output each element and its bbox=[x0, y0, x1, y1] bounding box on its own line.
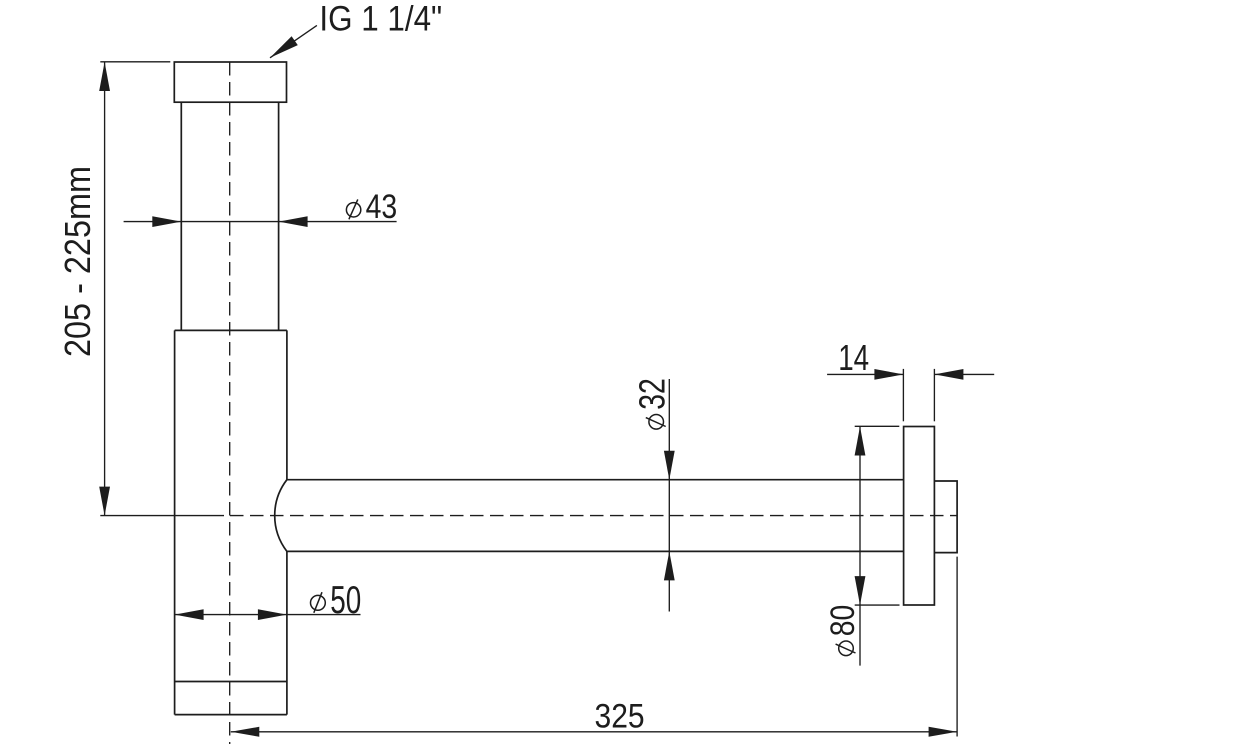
leader arrowhead IG bbox=[270, 36, 298, 58]
arrow left-point (50 left) bbox=[175, 609, 204, 620]
arrow right-point (325 right) bbox=[929, 727, 958, 737]
leader line IG bbox=[270, 25, 317, 57]
arrow up (80 top) bbox=[855, 427, 866, 456]
dim 205-225mm extension line bottom bbox=[100, 515, 224, 517]
body bottom cap line bbox=[175, 681, 287, 683]
label dia 32 (rotated) bbox=[631, 378, 672, 429]
arrow down (205-225 bottom) bbox=[99, 487, 110, 516]
label dia 50 bbox=[311, 579, 362, 622]
arrow down (32 top) bbox=[664, 451, 675, 480]
dim 80 dimension line bbox=[859, 427, 861, 666]
dim 14 dimension line bbox=[827, 373, 994, 375]
vertical centerline bbox=[229, 62, 231, 744]
arrow left-point (325 left) bbox=[231, 727, 259, 737]
label 205 - 225mm (rotated) bbox=[57, 166, 98, 357]
dim 14 extension line left bbox=[902, 369, 904, 421]
wall flange bbox=[904, 427, 935, 606]
vertical pipe bbox=[181, 102, 278, 330]
svg-text:50: 50 bbox=[330, 579, 361, 622]
arrow left-point (14 right) bbox=[934, 369, 963, 380]
svg-text:43: 43 bbox=[366, 188, 398, 226]
arrow right-point (14 left) bbox=[874, 369, 903, 380]
svg-text:IG 1 1/4": IG 1 1/4" bbox=[319, 0, 442, 39]
svg-text:14: 14 bbox=[838, 337, 869, 378]
pipe stub beyond flange bbox=[934, 481, 957, 553]
arrow right (43 left) bbox=[152, 216, 181, 227]
label dia 43 bbox=[346, 188, 397, 226]
dim 325 dimension line bbox=[231, 731, 957, 733]
top cap (IG 1 1/4" fitting) bbox=[174, 62, 286, 102]
dim 32 dimension line bbox=[668, 379, 670, 612]
svg-text:325: 325 bbox=[595, 698, 645, 736]
arrow up (32 bottom) bbox=[664, 551, 675, 580]
dim 80 extension line top bbox=[855, 425, 900, 427]
dim 325 extension line right bbox=[956, 557, 958, 737]
dim 43 dimension line bbox=[124, 221, 397, 223]
label dia 80 (rotated) bbox=[824, 605, 862, 656]
svg-text:205 - 225mm: 205 - 225mm bbox=[57, 166, 98, 357]
arrow down (80 bottom) bbox=[855, 576, 866, 605]
siphon body bbox=[175, 330, 287, 714]
dim 80 extension line bottom bbox=[855, 604, 900, 606]
dim 205-225mm extension line top bbox=[100, 61, 170, 63]
arrow left (43 right) bbox=[279, 216, 308, 227]
svg-text:32: 32 bbox=[631, 378, 672, 410]
dim 50 dimension line bbox=[175, 614, 361, 616]
body-pipe junction arc bbox=[275, 480, 287, 552]
arrow right-point (50 right) bbox=[258, 609, 287, 620]
horizontal outlet pipe bbox=[287, 480, 904, 552]
dim 205-225mm dimension line bbox=[104, 62, 106, 516]
arrow up (205-225 top) bbox=[99, 62, 110, 91]
dim 14 extension line right bbox=[933, 369, 935, 421]
svg-text:80: 80 bbox=[824, 605, 862, 637]
horizontal centerline bbox=[230, 515, 957, 517]
